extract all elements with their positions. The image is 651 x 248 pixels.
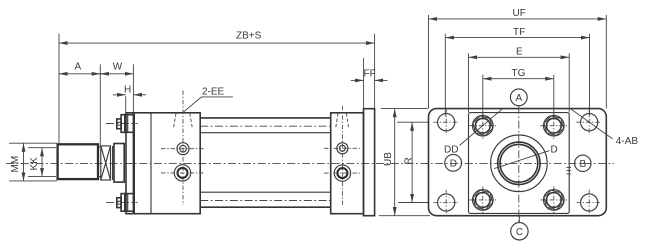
- tie rod nut top front: [117, 115, 134, 133]
- svg-text:FF: FF: [364, 69, 376, 80]
- svg-text:D: D: [551, 145, 558, 156]
- front head inner line: [150, 113, 152, 214]
- tie rod centerline top: [200, 125, 331, 127]
- mounting hole bottom right: [576, 190, 602, 216]
- front head port boss: [161, 165, 205, 181]
- front cover plate: [126, 113, 133, 214]
- dimension W: [113, 62, 134, 113]
- rod gland retainer: [114, 144, 124, 183]
- dimension A: [59, 62, 133, 146]
- svg-text:MM: MM: [10, 156, 21, 173]
- label 2-EE with leader: [184, 87, 233, 112]
- port position marker B: [575, 155, 591, 171]
- dimension ZB+S: [59, 30, 375, 144]
- label DD with leader: [444, 109, 502, 156]
- svg-text:A: A: [516, 93, 523, 104]
- rod end thread block: [58, 144, 98, 179]
- svg-text:TF: TF: [513, 27, 525, 38]
- front head port centerline vertical: [182, 91, 184, 206]
- svg-text:KK: KK: [29, 157, 40, 171]
- rear flange plate: [364, 109, 375, 216]
- rear head port boss: [324, 165, 360, 181]
- svg-text:B: B: [580, 159, 587, 170]
- svg-text:W: W: [113, 62, 123, 73]
- svg-text:R: R: [403, 157, 414, 164]
- dimension R: [397, 122, 430, 202]
- rear head port centerline vertical: [341, 106, 343, 205]
- front head port top opening hidden lines: [174, 113, 193, 128]
- dimension H: [113, 85, 146, 113]
- svg-text:A: A: [75, 62, 82, 73]
- thread relief X-box: [101, 146, 113, 180]
- main centerline: [6, 162, 614, 164]
- port position marker C: [511, 216, 528, 240]
- small thread marks near B: [567, 168, 572, 175]
- tie rod nut end bottom left: [469, 186, 496, 213]
- front nut centerline bottom: [106, 201, 138, 203]
- svg-text:H: H: [124, 85, 131, 96]
- dimension KK: [28, 148, 56, 177]
- tie rod nut end top right: [540, 112, 567, 139]
- dimension TG: [483, 68, 554, 118]
- dimension E: [469, 47, 570, 113]
- mounting hole bottom left: [433, 190, 459, 216]
- end view head square: [469, 113, 570, 214]
- svg-text:4-AB: 4-AB: [616, 136, 639, 147]
- dimension TF: [445, 27, 589, 116]
- rear head port top opening hidden lines: [336, 113, 349, 127]
- tie rod nut bottom front: [117, 194, 134, 212]
- svg-text:UB: UB: [383, 152, 394, 166]
- dimension FF: [351, 58, 388, 109]
- svg-text:D: D: [450, 159, 457, 170]
- cylinder tube and tie rods: [200, 118, 331, 207]
- label D bore with leader: [494, 145, 557, 169]
- dimension UF: [429, 8, 607, 108]
- dimension UB: [379, 109, 430, 216]
- front head block: [134, 113, 200, 214]
- tie rod nut end top left: [469, 112, 496, 139]
- svg-text:ZB+S: ZB+S: [236, 30, 262, 41]
- svg-text:2-EE: 2-EE: [202, 87, 225, 98]
- svg-text:C: C: [516, 227, 523, 238]
- rod connector lines: [98, 147, 101, 177]
- rear head block: [331, 113, 364, 214]
- svg-text:DD: DD: [444, 145, 458, 156]
- front nut centerline top: [106, 123, 138, 125]
- bore circles: [491, 135, 548, 192]
- port position marker A: [510, 89, 527, 106]
- end view flange plate: [429, 109, 607, 216]
- end view vertical centerline: [518, 106, 520, 223]
- port position marker D: [445, 154, 462, 171]
- tie rod nut end bottom right: [540, 186, 567, 213]
- front head cushion screw: [161, 143, 205, 155]
- rear head cushion screw: [324, 143, 360, 154]
- svg-text:TG: TG: [512, 68, 526, 79]
- mounting hole top right: [576, 109, 602, 135]
- svg-text:E: E: [516, 47, 523, 58]
- mounting hole top left: [433, 109, 459, 135]
- dimension MM: [9, 143, 57, 181]
- svg-text:UF: UF: [513, 8, 526, 19]
- tie rod centerline bottom: [200, 200, 331, 202]
- label 4-AB with leader: [570, 108, 639, 147]
